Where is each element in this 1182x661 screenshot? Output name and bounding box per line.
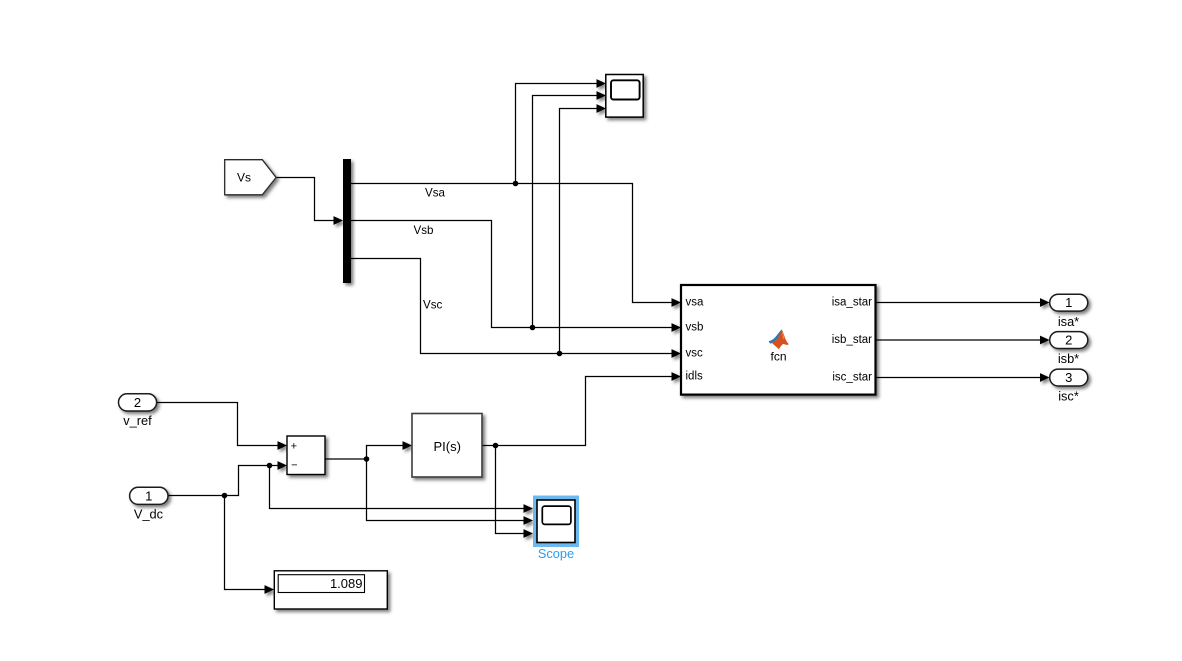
svg-text:vsc: vsc [686,348,704,360]
svg-text:Vsb: Vsb [414,224,434,237]
wire inport 1 V_dc to Sum minus input [168,461,287,495]
junction dot on Sum minus wire [267,463,273,469]
svg-text:idls: idls [686,371,704,383]
outport 1 [1050,294,1088,311]
svg-text:3: 3 [1065,370,1072,385]
wire Vsc branch to Scope1 input 3 [560,104,607,353]
svg-text:Vs: Vs [237,171,251,185]
svg-text:isb*: isb* [1058,351,1079,366]
wire fcn isb_star to outport 2 [876,336,1050,345]
display block [274,571,387,609]
svg-text:isc_star: isc_star [832,372,872,384]
svg-text:isa_star: isa_star [832,297,872,309]
wire Sum output to PI(s) input [325,441,412,459]
scope block top (Scope1) [606,75,643,118]
svg-text:fcn: fcn [770,350,786,364]
outport 2 [1050,332,1088,349]
junction dot on V_dc wire [222,493,228,499]
wire inport 2 v_ref to Sum plus input [157,403,288,450]
svg-text:2: 2 [134,395,141,410]
PI(s) transfer function block [412,414,482,478]
svg-text:PI(s): PI(s) [433,439,460,454]
wire fcn isc_star to outport 3 [876,373,1050,382]
junction dot on Sum output wire [364,456,370,462]
wire V_dc branch to Display [225,496,275,594]
wire Vsb branch to Scope1 input 2 [533,91,607,327]
svg-text:+: + [291,440,297,452]
junction dot on Vsc wire [557,351,563,357]
inport 2 [119,394,157,411]
svg-text:Vsa: Vsa [425,187,446,200]
wire Vsc (demux out3 to fcn vsc) [351,259,681,358]
MATLAB logo inside fcn [769,330,789,350]
svg-text:V_dc: V_dc [134,506,164,521]
scope block (selected) [537,500,575,543]
wire fcn isa_star to outport 1 [876,298,1050,307]
svg-text:1: 1 [1065,295,1072,310]
svg-text:isb_star: isb_star [832,334,872,346]
wire Vsb (demux out2 to fcn vsb) [351,221,681,332]
input tag Vs [225,160,276,195]
svg-text:Scope: Scope [538,546,574,561]
svg-text:−: − [291,459,297,471]
svg-text:1: 1 [145,488,152,503]
inport 1 [130,487,168,504]
wire PI(s) output to fcn idls [482,372,681,445]
outport 3 [1050,369,1088,386]
junction dot on Vsa wire [513,181,519,187]
junction dot on Vsb wire [530,325,536,331]
wire branch to Scope input 1 [270,466,534,513]
svg-text:vsa: vsa [686,297,705,309]
wire PI output branch to Scope input 3 [496,446,534,538]
svg-text:isc*: isc* [1058,389,1079,404]
demux (black bar) [343,159,351,283]
wire Sum output branch to Scope input 2 [367,459,534,525]
junction dot on PI output wire [493,443,499,449]
svg-text:2: 2 [1065,333,1072,348]
svg-text:isa*: isa* [1058,314,1079,329]
svg-text:v_ref: v_ref [123,413,152,428]
wire Vs to Demux [276,178,343,225]
svg-text:1.089: 1.089 [330,576,363,591]
scope block (selected) highlight [533,496,579,548]
svg-text:Vsc: Vsc [423,299,443,312]
svg-text:vsb: vsb [686,322,704,334]
sum block [287,436,325,475]
MATLAB Function block fcn [681,285,876,395]
wire Vsa (demux out1 to fcn vsa) [351,184,681,307]
wire Vsa branch to Scope1 input 1 [516,79,607,183]
